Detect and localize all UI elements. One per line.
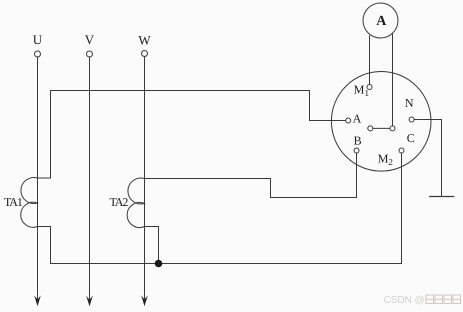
svg-text:B: B [354,134,362,148]
svg-text:C: C [407,131,415,145]
svg-text:V: V [85,32,95,47]
svg-text:U: U [33,32,43,47]
svg-text:TA1: TA1 [4,195,23,209]
svg-text:A: A [353,112,362,126]
svg-text:CSDN @: CSDN @ [384,295,425,306]
svg-text:A: A [376,14,387,29]
svg-text:TA2: TA2 [110,195,129,209]
svg-text:W: W [138,33,151,48]
svg-text:N: N [405,96,414,110]
